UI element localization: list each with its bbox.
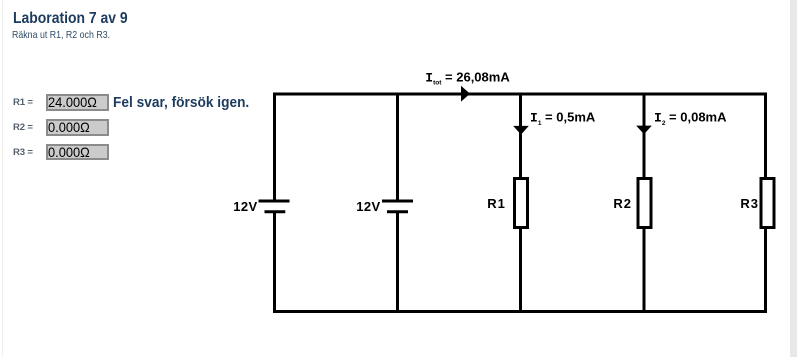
svg-text:R3: R3 xyxy=(740,196,759,211)
svg-text:I2 = 0,08mA: I2 = 0,08mA xyxy=(654,110,727,127)
svg-text:12V: 12V xyxy=(233,199,257,214)
svg-text:R1: R1 xyxy=(487,196,506,211)
svg-text:12V: 12V xyxy=(356,199,380,214)
svg-text:Itot = 26,08mA: Itot = 26,08mA xyxy=(425,69,510,86)
svg-text:R2: R2 xyxy=(613,196,632,211)
svg-text:I1 = 0,5mA: I1 = 0,5mA xyxy=(530,110,596,127)
